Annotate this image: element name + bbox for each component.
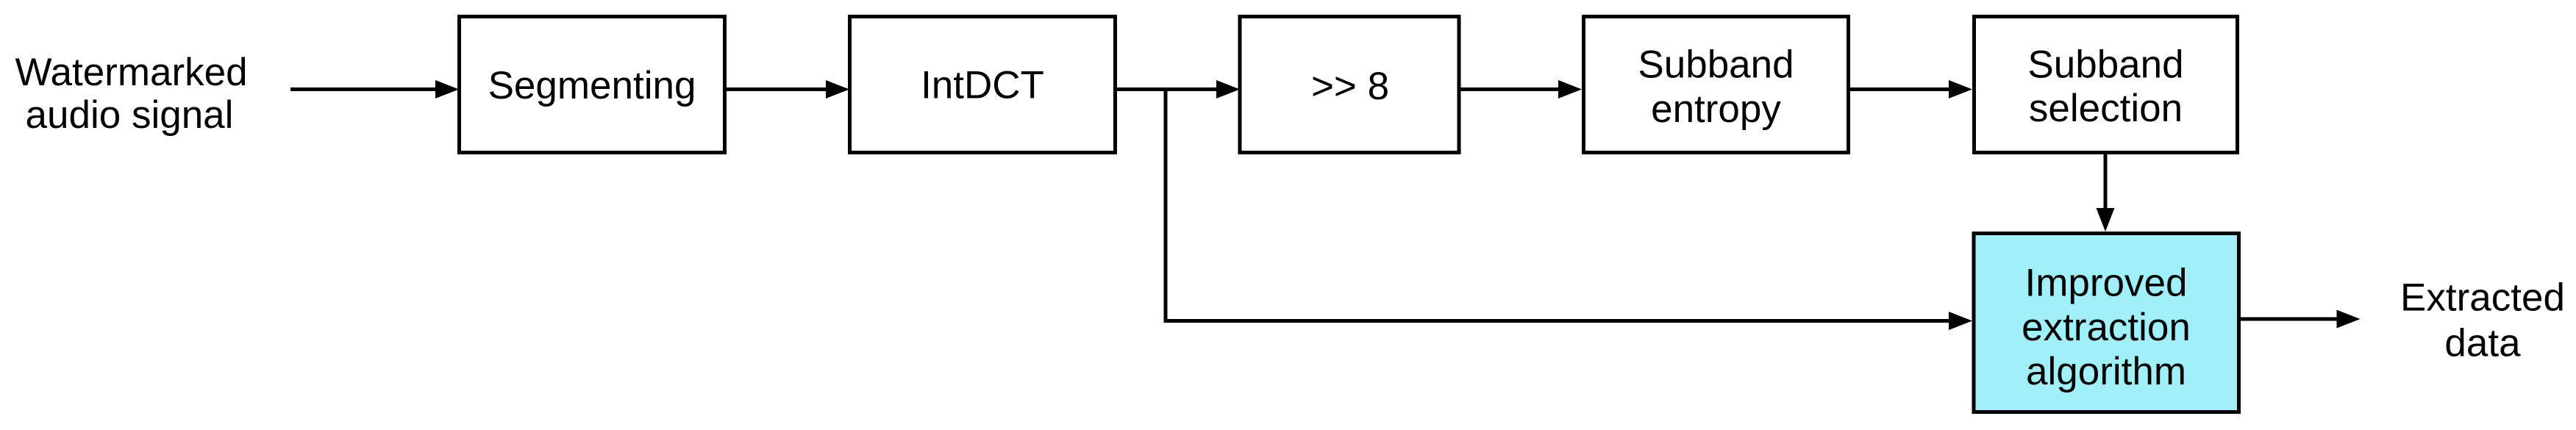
svg-text:Subband: Subband — [1638, 43, 1794, 87]
node Extracted data — [2400, 276, 2565, 365]
svg-text:Extracted: Extracted — [2400, 276, 2565, 320]
wire arrow IntDCT to shift block — [1117, 80, 1240, 98]
wire arrow shift block to Subband entropy — [1459, 80, 1582, 98]
svg-text:Subband: Subband — [2027, 43, 2183, 87]
wire branch vertical from IntDCT output — [1164, 87, 1168, 321]
block Segmenting — [460, 17, 725, 153]
svg-text:entropy: entropy — [1651, 87, 1781, 131]
wire arrow Subband entropy to Subband selection — [1849, 80, 1973, 98]
wire branch horizontal to Improved extraction algorithm — [1164, 312, 1973, 330]
wire arrow Segmenting to IntDCT — [727, 80, 849, 98]
svg-text:Watermarked: Watermarked — [15, 51, 247, 94]
block Improved extraction algorithm (highlighted) — [1974, 234, 2239, 412]
svg-text:algorithm: algorithm — [2026, 350, 2186, 393]
wire arrow Subband selection down to Improved extraction algorithm — [2097, 154, 2115, 232]
block shift right 8 — [1240, 17, 1459, 153]
block Subband entropy — [1584, 17, 1849, 153]
svg-text:extraction: extraction — [2022, 306, 2191, 349]
wire arrow input to Segmenting — [290, 80, 459, 98]
block IntDCT — [850, 17, 1116, 153]
svg-text:>> 8: >> 8 — [1311, 65, 1389, 108]
svg-text:audio signal: audio signal — [26, 93, 234, 137]
svg-text:Segmenting: Segmenting — [488, 64, 696, 107]
svg-text:Improved: Improved — [2025, 262, 2188, 305]
node Watermarked audio signal — [15, 51, 247, 137]
block Subband selection — [1974, 17, 2238, 153]
svg-text:data: data — [2444, 322, 2521, 365]
wire arrow Improved extraction algorithm to output — [2241, 310, 2361, 329]
svg-text:selection: selection — [2029, 87, 2183, 130]
svg-text:IntDCT: IntDCT — [921, 64, 1044, 107]
